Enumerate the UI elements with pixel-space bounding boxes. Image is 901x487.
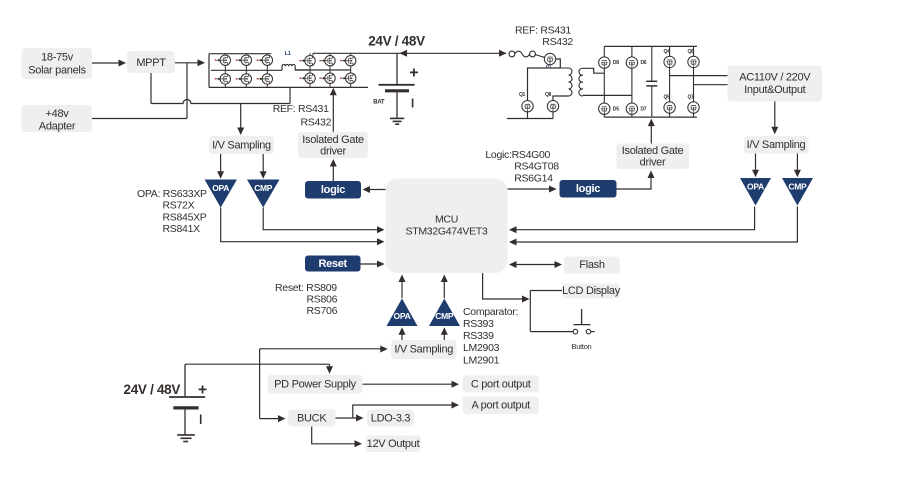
svg-text:MCU: MCU	[435, 213, 458, 225]
svg-text:Isolated Gate: Isolated Gate	[622, 145, 684, 157]
svg-text:LCD Display: LCD Display	[562, 285, 621, 297]
svg-text:REF: RS431: REF: RS431	[273, 103, 329, 115]
svg-text:24V / 48V: 24V / 48V	[124, 382, 181, 397]
svg-text:Isolated Gate: Isolated Gate	[302, 134, 364, 146]
svg-text:I/V Sampling: I/V Sampling	[394, 344, 453, 356]
svg-text:Button: Button	[572, 342, 592, 351]
svg-text:RS393: RS393	[463, 318, 494, 330]
svg-text:BUCK: BUCK	[297, 412, 327, 424]
svg-text:Q1: Q1	[519, 92, 526, 98]
svg-text:I/V Sampling: I/V Sampling	[212, 140, 271, 152]
svg-text:CMP: CMP	[254, 183, 273, 193]
svg-text:CMP: CMP	[788, 181, 807, 191]
svg-text:RS806: RS806	[307, 293, 338, 305]
svg-text:Logic:RS4G00: Logic:RS4G00	[485, 149, 550, 161]
svg-text:I/V Sampling: I/V Sampling	[747, 139, 806, 151]
svg-text:L1: L1	[285, 51, 291, 57]
svg-text:RS706: RS706	[307, 305, 338, 317]
svg-text:RS6G14: RS6G14	[514, 172, 553, 184]
svg-text:RS4GT08: RS4GT08	[514, 160, 559, 172]
svg-text:24V / 48V: 24V / 48V	[368, 34, 425, 49]
svg-text:OPA: OPA	[394, 311, 411, 321]
svg-text:driver: driver	[640, 156, 666, 168]
svg-text:RS841X: RS841X	[163, 223, 201, 235]
svg-text:Q5: Q5	[664, 94, 671, 100]
svg-text:Q4: Q4	[664, 49, 671, 55]
svg-text:+: +	[198, 382, 207, 399]
svg-text:+48v: +48v	[46, 108, 70, 120]
svg-text:C port output: C port output	[471, 378, 531, 390]
svg-text:RS432: RS432	[301, 117, 332, 129]
svg-text:MPPT: MPPT	[136, 57, 166, 69]
svg-text:Adapter: Adapter	[39, 120, 76, 132]
svg-text:Reset: Reset	[318, 258, 347, 270]
svg-text:D6: D6	[641, 60, 647, 66]
svg-text:Q6: Q6	[687, 49, 694, 55]
svg-text:RS432: RS432	[542, 36, 573, 48]
svg-text:D8: D8	[613, 60, 619, 66]
svg-text:logic: logic	[321, 184, 345, 196]
svg-text:A port output: A port output	[471, 400, 530, 412]
svg-text:RS72X: RS72X	[163, 200, 195, 212]
svg-text:REF: RS431: REF: RS431	[515, 24, 571, 36]
svg-text:Solar panels: Solar panels	[28, 64, 86, 76]
svg-text:Input&Output: Input&Output	[744, 84, 805, 96]
svg-text:LM2901: LM2901	[463, 354, 500, 366]
svg-text:Q8: Q8	[545, 92, 552, 98]
svg-text:RS339: RS339	[463, 330, 494, 342]
svg-text:OPA: RS633XP: OPA: RS633XP	[137, 188, 207, 200]
svg-text:OPA: OPA	[747, 181, 764, 191]
svg-text:LDO-3.3: LDO-3.3	[371, 412, 411, 424]
svg-text:CMP: CMP	[435, 311, 454, 321]
svg-text:Comparator:: Comparator:	[463, 306, 518, 318]
svg-text:logic: logic	[576, 183, 600, 195]
svg-text:AC110V / 220V: AC110V / 220V	[739, 71, 811, 83]
svg-text:BAT: BAT	[373, 100, 385, 106]
svg-text:driver: driver	[320, 145, 346, 157]
svg-text:RS845XP: RS845XP	[163, 211, 207, 223]
svg-text:PD Power Supply: PD Power Supply	[274, 379, 357, 391]
svg-text:LM2903: LM2903	[463, 342, 500, 354]
svg-text:+: +	[409, 65, 418, 82]
svg-text:D5: D5	[613, 106, 619, 112]
svg-text:OPA: OPA	[212, 183, 229, 193]
svg-text:D7: D7	[641, 106, 647, 112]
svg-text:12V Output: 12V Output	[367, 438, 420, 450]
svg-text:Flash: Flash	[579, 259, 605, 271]
svg-text:Q7: Q7	[687, 94, 694, 100]
svg-text:Reset: RS809: Reset: RS809	[275, 282, 337, 294]
svg-text:18-75v: 18-75v	[41, 51, 74, 63]
svg-text:STM32G474VET3: STM32G474VET3	[406, 225, 488, 237]
